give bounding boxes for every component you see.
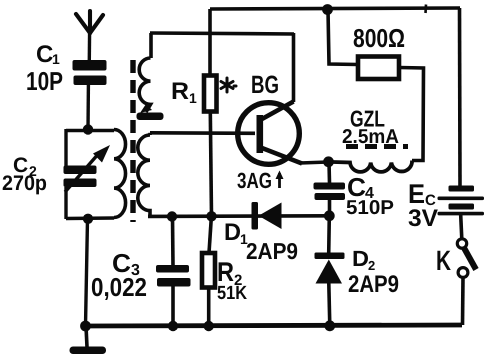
wire R2 top lead bbox=[209, 216, 211, 253]
wire bottom rail bbox=[85, 325, 462, 326]
wire L2 top to collector branch bbox=[150, 33, 294, 34]
node C3 bottom bbox=[168, 321, 178, 331]
wire collector drop bbox=[292, 33, 296, 102]
wire C3 bottom lead bbox=[171, 285, 175, 326]
wire R1 bottom / base column bbox=[210, 112, 211, 217]
inductor L1 tank coil bbox=[114, 130, 126, 218]
node R2 bottom bbox=[204, 321, 214, 331]
wire antenna to C1 bbox=[88, 31, 92, 60]
wire top rail bbox=[210, 8, 460, 9]
label C2 bbox=[2, 154, 47, 195]
node D2 bottom bbox=[324, 320, 335, 331]
node detector right bbox=[324, 210, 335, 221]
resistor R1 bbox=[204, 76, 217, 112]
transformer core bbox=[130, 60, 135, 222]
wire tank loop top bbox=[66, 129, 114, 132]
svg-text:R: R bbox=[171, 78, 189, 105]
transistor BG bbox=[238, 102, 302, 165]
wire C1 to tank bbox=[86, 85, 90, 130]
svg-text:51K: 51K bbox=[217, 283, 247, 304]
label 2.5mA bbox=[342, 126, 399, 148]
inductor L2 feedback coil bbox=[139, 33, 151, 112]
svg-text:510P: 510P bbox=[346, 197, 394, 219]
wire switch to bottom rail bbox=[461, 278, 465, 326]
svg-text:2AP9: 2AP9 bbox=[348, 271, 399, 298]
label C1 bbox=[26, 41, 63, 96]
svg-text:800Ω: 800Ω bbox=[353, 23, 405, 53]
label D1 bbox=[224, 219, 298, 264]
svg-text:0,022: 0,022 bbox=[91, 272, 147, 302]
node E emitter junction bbox=[323, 156, 334, 167]
battery Ec bbox=[438, 186, 485, 216]
wire tank bottom to ground rail bbox=[86, 219, 88, 326]
svg-text:1: 1 bbox=[52, 51, 60, 67]
inductor L3 secondary coil bbox=[138, 133, 150, 216]
antenna bbox=[76, 11, 103, 33]
wire detector line bbox=[148, 214, 329, 218]
svg-text:3V: 3V bbox=[408, 205, 438, 232]
wire D2 bottom lead bbox=[329, 283, 330, 326]
switch K bbox=[457, 239, 476, 278]
diode D2 bbox=[315, 253, 345, 284]
node C3 top bbox=[167, 211, 177, 221]
svg-text:2AP9: 2AP9 bbox=[246, 238, 298, 264]
3AG up arrow bbox=[276, 171, 284, 189]
label C3 bbox=[91, 248, 147, 302]
L2 tap bar bbox=[137, 104, 164, 120]
node base column bottom bbox=[206, 211, 216, 221]
svg-text:10P: 10P bbox=[26, 66, 63, 96]
wire right rail to battery bbox=[458, 8, 462, 186]
svg-text:270p: 270p bbox=[2, 172, 47, 195]
svg-text:K: K bbox=[436, 245, 451, 276]
label C4 bbox=[346, 172, 394, 219]
tick mark on top rail bbox=[424, 5, 427, 14]
wire 800 ohm right lead bbox=[399, 68, 424, 161]
label Ec bbox=[408, 179, 438, 232]
node B tank bottom junction bbox=[83, 214, 93, 224]
label R2 bbox=[217, 257, 247, 304]
diode D1 bbox=[252, 202, 282, 230]
GZL core dashes bbox=[346, 144, 408, 149]
label 800 ohm bbox=[353, 23, 405, 53]
label 3AG bbox=[237, 168, 272, 193]
node A tank top junction bbox=[83, 124, 93, 134]
label GZL bbox=[350, 106, 385, 132]
wire battery to switch bbox=[461, 215, 462, 239]
svg-text:1: 1 bbox=[189, 90, 197, 106]
wire D2 top lead bbox=[327, 216, 331, 254]
wire C3 top lead bbox=[171, 217, 175, 267]
label K bbox=[436, 245, 451, 276]
wire R2 bottom lead bbox=[207, 288, 211, 327]
capacitor C4 bbox=[314, 183, 346, 201]
wire R1 top lead bbox=[208, 9, 212, 75]
capacitor C3 bbox=[156, 265, 191, 287]
wire base bbox=[150, 131, 255, 135]
capacitor C1 bbox=[73, 60, 107, 85]
resistor R2 bbox=[202, 253, 215, 288]
svg-text:3AG: 3AG bbox=[237, 168, 272, 193]
asterisk mark bbox=[221, 78, 236, 92]
inductor GZL bbox=[333, 161, 412, 172]
node ground-left bbox=[80, 321, 91, 332]
svg-text:BG: BG bbox=[251, 71, 279, 99]
svg-text:C: C bbox=[36, 41, 53, 68]
node J1 top rail junction bbox=[322, 4, 333, 15]
label D2 bbox=[348, 246, 399, 298]
svg-text:D: D bbox=[352, 246, 369, 271]
wire C4 to detector node bbox=[328, 200, 332, 216]
label R1 bbox=[171, 78, 197, 106]
capacitor C2 (variable) bbox=[64, 129, 111, 219]
ground bbox=[70, 326, 107, 354]
wire emitter node to C4 bbox=[327, 162, 331, 183]
svg-text:D: D bbox=[224, 219, 241, 246]
wire emitter bbox=[300, 162, 328, 163]
label BG bbox=[251, 71, 279, 99]
wire 800 ohm branch from top rail bbox=[328, 10, 358, 65]
resistor 800 ohm bbox=[358, 57, 399, 80]
wire tank loop bottom bbox=[66, 216, 114, 220]
